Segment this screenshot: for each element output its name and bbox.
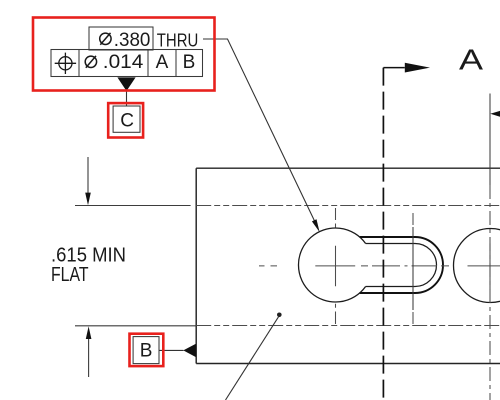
svg-text:A: A [156, 52, 169, 73]
leader dot on part face [226, 313, 282, 400]
vertical centerline hole circle [335, 208, 337, 324]
position symbol [55, 53, 76, 74]
dimension arrow upper (points down) [85, 157, 91, 205]
circle 2 right [454, 229, 500, 303]
svg-text:.380: .380 [114, 30, 151, 51]
vertical centerline slot end [412, 213, 414, 324]
svg-text:.014: .014 [103, 52, 144, 73]
datum B box [133, 337, 159, 364]
red highlight box datum B [130, 334, 164, 366]
datum C triangle [117, 77, 135, 106]
svg-text:FLAT: FLAT [51, 263, 89, 286]
feature control frame row 2 boxes [51, 50, 203, 77]
phantom line upper flat boundary [196, 205, 500, 207]
svg-text:A: A [459, 44, 484, 76]
svg-text:C: C [120, 110, 134, 131]
slot outer contour [360, 237, 443, 293]
svg-text:B: B [183, 52, 196, 73]
svg-text:B: B [140, 340, 153, 361]
vertical centerline circle 2 [489, 94, 491, 400]
extension line upper [75, 205, 191, 207]
diameter symbol row 2 [85, 56, 96, 68]
slot inner contour [366, 244, 437, 287]
extension line lower [75, 325, 196, 327]
section line A-A [383, 63, 430, 400]
phantom line lower flat boundary [196, 325, 500, 327]
datum B leader [160, 344, 196, 357]
dimension arrow at circle 2 centerline (points left) [490, 111, 500, 117]
leader from callout to hole [203, 39, 320, 232]
dimension arrow lower (points up) [86, 326, 92, 377]
svg-text:THRU: THRU [157, 29, 199, 50]
red highlight box datum C [108, 103, 143, 137]
hole circle (keyhole) [298, 228, 365, 302]
horizontal centerline through features [259, 265, 500, 267]
part outline [196, 168, 500, 363]
datum C box [113, 106, 140, 132]
red highlight rect around callout [33, 18, 215, 91]
diameter symbol row 1 [100, 33, 111, 45]
feature control frame row 1 box .380 [89, 27, 153, 50]
